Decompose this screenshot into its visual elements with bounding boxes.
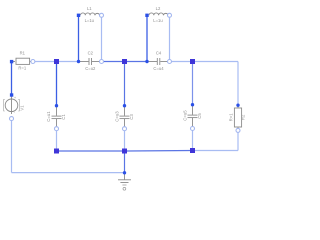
svg-text:C4: C4 <box>156 50 162 55</box>
svg-text:R=1: R=1 <box>229 113 234 122</box>
svg-text:L=1u: L=1u <box>85 18 95 23</box>
svg-text:C=u1: C=u1 <box>46 111 51 122</box>
svg-text:C1: C1 <box>61 114 66 120</box>
svg-text:C5: C5 <box>197 113 202 119</box>
svg-text:L1: L1 <box>87 6 92 11</box>
svg-text:+: + <box>14 96 16 100</box>
svg-text:C2: C2 <box>88 50 94 55</box>
svg-text:V1: V1 <box>20 105 25 111</box>
svg-text:L=1u: L=1u <box>153 18 163 23</box>
svg-text:C=u5: C=u5 <box>182 110 187 121</box>
svg-text:C3: C3 <box>129 114 134 120</box>
svg-text:C=u2: C=u2 <box>85 66 96 71</box>
svg-text:R1: R1 <box>20 51 26 56</box>
svg-text:C=u3: C=u3 <box>114 111 119 122</box>
svg-text:R2: R2 <box>241 114 246 120</box>
svg-text:L2: L2 <box>156 6 161 11</box>
svg-text:R=1: R=1 <box>18 66 26 71</box>
svg-text:C=u4: C=u4 <box>153 66 164 71</box>
